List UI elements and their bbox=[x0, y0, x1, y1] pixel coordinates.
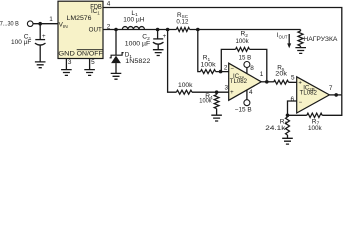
svg-text:4: 4 bbox=[107, 0, 111, 7]
resistor R2 100k feedback bbox=[221, 30, 266, 80]
svg-text:FDB: FDB bbox=[90, 2, 102, 11]
ground for D1 bbox=[111, 73, 122, 79]
svg-text:20k: 20k bbox=[275, 70, 288, 77]
svg-text:ON/OFF: ON/OFF bbox=[77, 51, 103, 58]
node sense left junction bbox=[166, 28, 170, 32]
svg-text:LM2576: LM2576 bbox=[67, 15, 92, 22]
node input/C1 junction bbox=[38, 22, 42, 26]
wire FDB feedback line bbox=[103, 0, 342, 95]
svg-text:8: 8 bbox=[250, 65, 254, 72]
IC U1 LM2576 body bbox=[58, 1, 103, 58]
input terminal bbox=[27, 21, 33, 27]
svg-text:TL082: TL082 bbox=[230, 78, 248, 85]
node pin3 junction bbox=[215, 84, 229, 94]
ground for C2 bbox=[153, 50, 164, 56]
svg-text:−15 В: −15 В bbox=[235, 107, 252, 114]
svg-text:100 µH: 100 µH bbox=[123, 17, 144, 24]
svg-text:OUT: OUT bbox=[89, 27, 102, 34]
svg-text:5: 5 bbox=[291, 75, 295, 82]
pin 5 ON/OFF of IC1 bbox=[90, 59, 96, 70]
node C2 junction bbox=[156, 28, 160, 32]
pin 4 -15V supply bbox=[235, 89, 253, 114]
svg-text:100 µF: 100 µF bbox=[11, 39, 31, 46]
node op-amp A output bbox=[260, 71, 274, 84]
resistor R6 24.1k bbox=[265, 115, 289, 138]
svg-text:TL082: TL082 bbox=[300, 89, 318, 96]
op-amp U2A TL082 bbox=[229, 63, 262, 100]
svg-text:100k: 100k bbox=[199, 97, 212, 104]
svg-text:+: + bbox=[298, 81, 302, 87]
wire OUT line bbox=[103, 23, 301, 30]
ground for R4 bbox=[211, 115, 222, 121]
resistor Rsc 0.12 bbox=[176, 12, 189, 32]
resistor R7 100k feedback bbox=[288, 95, 342, 132]
svg-text:2: 2 bbox=[224, 64, 228, 71]
resistor R4 100k bbox=[199, 92, 219, 115]
svg-text:4: 4 bbox=[249, 89, 253, 96]
ground for pin 5 bbox=[84, 70, 95, 76]
input label 7...30 V bbox=[0, 21, 19, 28]
svg-text:−: − bbox=[230, 67, 234, 73]
svg-text:24.1k: 24.1k bbox=[265, 125, 286, 132]
wire pin6 feedback bbox=[288, 96, 297, 115]
svg-text:7: 7 bbox=[329, 85, 333, 92]
svg-text:2: 2 bbox=[107, 23, 111, 30]
node pin2 junction bbox=[219, 64, 228, 73]
svg-text:3: 3 bbox=[225, 84, 229, 91]
svg-text:100k: 100k bbox=[308, 125, 322, 132]
resistor R1 100k bbox=[201, 54, 217, 73]
load resistor NAGRUZKA bbox=[298, 30, 338, 48]
ground for R6 bbox=[282, 138, 293, 144]
svg-text:5: 5 bbox=[91, 59, 95, 66]
node sense right junction bbox=[196, 28, 200, 32]
capacitor C1 100uF bbox=[11, 24, 46, 62]
resistor R5 20k bbox=[274, 65, 297, 85]
node op-amp B output bbox=[329, 85, 342, 97]
svg-text:+: + bbox=[163, 33, 167, 40]
svg-text:0.12: 0.12 bbox=[176, 18, 188, 25]
svg-text:100k: 100k bbox=[178, 82, 193, 89]
node diode junction bbox=[114, 28, 118, 32]
pin 8 +15V supply bbox=[239, 55, 255, 74]
svg-text:15 В: 15 В bbox=[239, 55, 252, 62]
svg-text:1: 1 bbox=[260, 71, 264, 78]
ground for C1 bbox=[35, 62, 46, 68]
op-amp U2B TL082 bbox=[297, 77, 330, 113]
svg-text:1: 1 bbox=[49, 16, 53, 23]
svg-text:+: + bbox=[42, 33, 46, 40]
svg-text:GND: GND bbox=[58, 51, 75, 58]
svg-text:6: 6 bbox=[291, 96, 295, 103]
svg-text:1000 µF: 1000 µF bbox=[125, 41, 150, 48]
capacitor C2 1000uF bbox=[125, 30, 167, 50]
svg-text:+: + bbox=[230, 90, 234, 96]
wire input to Vin pin bbox=[33, 16, 58, 24]
diode D1 1N5822 bbox=[110, 30, 151, 74]
ground for load bbox=[295, 48, 306, 54]
resistor R3 100k bbox=[176, 82, 193, 94]
svg-text:7...30 В: 7...30 В bbox=[0, 21, 19, 28]
svg-text:100k: 100k bbox=[236, 38, 250, 45]
svg-text:100k: 100k bbox=[201, 62, 217, 69]
wire sense+ to op-amp bbox=[168, 30, 229, 93]
node pin6 junction bbox=[286, 114, 290, 118]
wire sense- to op-amp bbox=[198, 30, 229, 72]
svg-text:3: 3 bbox=[68, 59, 72, 66]
pin 3 GND of IC1 bbox=[66, 59, 72, 70]
inductor L1 100uH bbox=[122, 10, 144, 30]
ground for pin 3 bbox=[61, 70, 72, 76]
svg-text:НАГРУЗКА: НАГРУЗКА bbox=[303, 36, 338, 43]
svg-text:1N5822: 1N5822 bbox=[125, 58, 150, 65]
current Iout arrow bbox=[277, 32, 291, 48]
svg-text:−: − bbox=[299, 100, 303, 106]
